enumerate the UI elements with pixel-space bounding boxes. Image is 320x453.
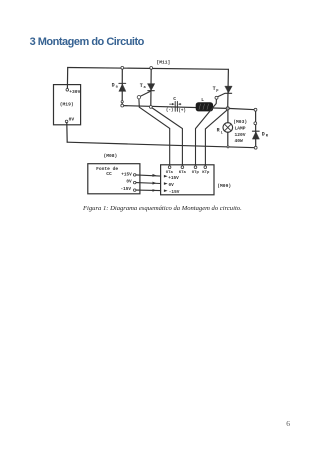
- node label (M08): [104, 153, 118, 159]
- svg-text:0V: 0V: [126, 179, 132, 184]
- wire 0V drop: [66, 123, 68, 143]
- wire +30V drop: [66, 68, 68, 89]
- svg-text:(M19): (M19): [60, 101, 74, 107]
- svg-text:a: a: [144, 86, 147, 90]
- svg-text:120V: 120V: [235, 132, 246, 138]
- wire gate GTa: [139, 99, 170, 165]
- thyristor Tp: [213, 86, 233, 99]
- wire thyristor Tp branch: [227, 69, 230, 108]
- svg-text:a: a: [116, 85, 119, 89]
- capacitor C: [166, 96, 186, 114]
- svg-text:R: R: [217, 127, 220, 133]
- wire thyristor Ta branch: [150, 68, 152, 107]
- wire bottom rail: [67, 142, 255, 148]
- svg-text:KTa: KTa: [179, 171, 187, 175]
- trigger box (M09): [161, 165, 214, 195]
- svg-text:(+): (+): [178, 109, 186, 114]
- svg-text:-15V: -15V: [121, 187, 132, 192]
- svg-text:-15V: -15V: [169, 190, 180, 195]
- node junction below Tp: [226, 107, 229, 110]
- wire diode Da branch: [121, 68, 123, 106]
- node on top rail at Ta: [150, 67, 153, 70]
- node at DR top corner: [254, 108, 257, 111]
- wire rail to DR: [228, 108, 256, 109]
- wire gate GTp: [196, 99, 217, 164]
- node label (M09): [217, 183, 231, 189]
- DC supply box (M08) Fonte de CC: [88, 164, 140, 194]
- svg-text:LAMP: LAMP: [235, 126, 246, 132]
- source box (M19): [54, 85, 81, 125]
- svg-text:(-): (-): [166, 108, 174, 113]
- terminal circle on DR branch: [254, 122, 257, 125]
- diode DR: [252, 131, 268, 139]
- node lamp to bottom rail: [227, 146, 229, 148]
- terminal circle on Da lead: [121, 101, 123, 103]
- svg-text:T: T: [140, 83, 143, 89]
- node label [M11]: [157, 60, 171, 66]
- node middle rail at Da: [121, 104, 124, 107]
- page number: [286, 419, 290, 428]
- svg-text:+30V: +30V: [69, 89, 80, 95]
- wire +15V interconnect: [136, 174, 161, 177]
- lamp RL: [217, 123, 233, 136]
- svg-text:D: D: [112, 83, 115, 89]
- svg-text:L: L: [221, 131, 224, 135]
- svg-text:D: D: [262, 132, 265, 138]
- node middle rail at Ta: [149, 106, 152, 109]
- svg-text:(M09): (M09): [217, 183, 231, 189]
- svg-text:C: C: [173, 96, 176, 102]
- svg-text:(M03): (M03): [233, 119, 247, 125]
- svg-text:[M11]: [M11]: [157, 60, 171, 66]
- svg-text:p: p: [216, 89, 219, 93]
- wire lamp branch lower: [227, 132, 229, 147]
- svg-text:+15V: +15V: [168, 176, 179, 181]
- lamp value labels (M03) LAMP 120V 40W: [233, 119, 247, 144]
- thyristor Ta: [137, 83, 155, 99]
- wire diode DR branch: [255, 110, 257, 148]
- figure caption: [83, 205, 242, 212]
- inductor L: [196, 97, 212, 111]
- svg-text:(M08): (M08): [104, 153, 118, 159]
- heading: 3 Montagem do Circuito: [30, 36, 144, 48]
- svg-text:0V: 0V: [69, 116, 75, 122]
- wire cathode KTa: [151, 107, 183, 165]
- svg-text:0V: 0V: [169, 183, 175, 188]
- svg-text:40W: 40W: [235, 138, 244, 144]
- svg-text:CC: CC: [106, 171, 112, 177]
- wire -15V interconnect: [136, 189, 161, 192]
- svg-text:+15V: +15V: [121, 172, 132, 177]
- svg-text:R: R: [266, 135, 269, 139]
- wire middle commutation rail: [122, 106, 227, 109]
- svg-text:GTa: GTa: [166, 171, 174, 175]
- svg-text:KTp: KTp: [202, 171, 210, 175]
- node at DR bottom corner: [254, 146, 257, 149]
- wire 0V interconnect: [136, 182, 161, 185]
- svg-text:T: T: [213, 86, 216, 92]
- wire top rail: [68, 68, 229, 70]
- svg-text:GTp: GTp: [192, 171, 200, 175]
- diode Da: [112, 83, 126, 92]
- wire cathode KTp: [205, 110, 227, 166]
- wire lamp branch upper: [227, 108, 229, 122]
- node on top rail at Da: [121, 66, 124, 69]
